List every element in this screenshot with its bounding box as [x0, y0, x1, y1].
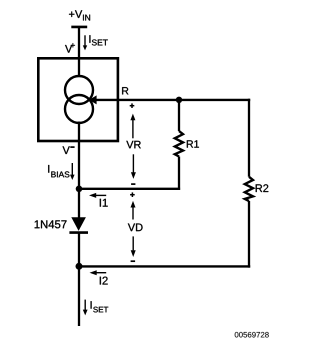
diode D1 triangle [71, 217, 86, 231]
label 1N457 [35, 220, 67, 228]
superscript minus of V- [70, 146, 74, 148]
label ISET (top) [89, 35, 107, 45]
VR up arrow [130, 114, 135, 139]
wire R2 top lead (from R wire corner down) [248, 99, 250, 177]
current arrow ISET (top) [83, 35, 87, 50]
VD plus sign [130, 192, 135, 197]
current arrow IBIAS [70, 163, 75, 180]
wire I2 horizontal (node to R2 bottom) [79, 265, 250, 267]
wire V- from current source through box to diode anode [78, 122, 80, 219]
wire from +VIN rail into current source box [78, 27, 80, 77]
current arrow I1 [89, 193, 106, 198]
VD minus sign [131, 260, 136, 262]
label I1 [100, 199, 108, 207]
part number 00569728 [235, 332, 269, 338]
resistor R2 [245, 177, 253, 201]
label R2 [256, 184, 269, 192]
junction dot at R1 top [176, 97, 182, 103]
VR down arrow [131, 154, 136, 179]
current source circle (bottom) [65, 95, 93, 123]
node label V- [63, 146, 70, 154]
diode D1 cathode bar [69, 231, 88, 234]
current source circle (top) [65, 76, 93, 104]
VR minus sign [131, 183, 135, 185]
current arrow ISET (bottom) [83, 300, 88, 316]
VD up arrow [131, 201, 136, 220]
wire R1 bottom lead [178, 157, 180, 190]
label R1 [187, 140, 199, 147]
resistor R1 [175, 131, 183, 157]
VR plus sign [130, 103, 135, 108]
wire I1 horizontal (node to R1 bottom) [79, 188, 180, 190]
wire diode cathode to bottom node [78, 234, 80, 267]
wire R1 top lead [178, 100, 180, 131]
current source box U1 [38, 58, 118, 141]
label +VIN [69, 10, 90, 20]
label IBIAS [48, 165, 69, 177]
node label R [122, 87, 128, 94]
node label V+ [65, 43, 75, 52]
control arrowhead into current source [89, 95, 97, 104]
wire R (horizontal from current source to R2 branch) [94, 99, 250, 101]
junction dot at I1 node [76, 186, 83, 193]
label I2 [100, 277, 108, 285]
junction dot at I2 node [76, 263, 83, 270]
label VD [128, 224, 143, 232]
VD down arrow [131, 236, 136, 257]
wire R2 bottom lead [248, 201, 250, 268]
wire ISET output (bottom vertical) [78, 266, 80, 326]
power rail bar [71, 26, 87, 29]
current arrow I2 [90, 270, 107, 275]
label VR [126, 141, 140, 148]
label ISET (bottom) [91, 301, 109, 312]
